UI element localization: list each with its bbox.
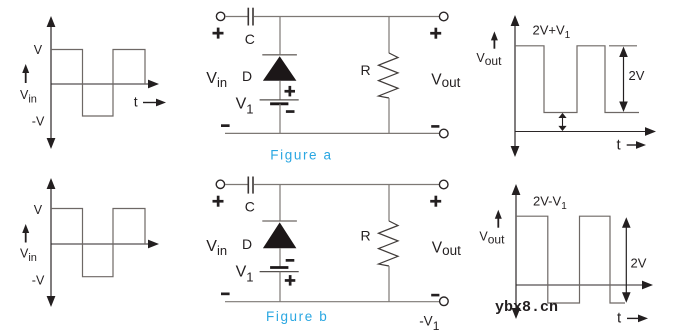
wire capacitor to output terminal via top rail (Figure a) <box>254 16 440 18</box>
svg-text:V: V <box>34 43 43 57</box>
svg-text:2V+V1: 2V+V1 <box>533 23 571 42</box>
svg-text:-V: -V <box>32 274 45 288</box>
diode D cathode bar (Figure a) <box>262 54 297 56</box>
Vout axis vertical (bottom-right panel) <box>512 184 521 319</box>
t axis horizontal (bottom-left panel) <box>51 240 159 249</box>
waveform trace Vin square wave (bottom-left panel) <box>51 209 145 277</box>
arrow up beside Vin label (top-left panel) <box>22 64 29 83</box>
wire battery to bottom rail (Figure b) <box>279 272 281 302</box>
Vin axis vertical (bottom-left panel) <box>47 178 56 307</box>
Vout axis vertical (top-right panel) <box>511 15 520 157</box>
t axis horizontal (top-left panel) <box>51 80 159 89</box>
wire top rail to diode (Figure b) <box>279 185 281 221</box>
svg-text:-V1: -V1 <box>419 313 440 333</box>
svg-text:2V: 2V <box>631 255 647 270</box>
svg-text:t: t <box>134 94 138 110</box>
svg-text:Figure a: Figure a <box>270 148 332 163</box>
input terminal + (Figure b) <box>216 180 224 188</box>
arrow up beside Vout label (bottom-right panel) <box>495 210 502 228</box>
diode D triangle (Figure a) <box>263 56 297 80</box>
wire diode to battery (Figure b) <box>279 248 281 267</box>
dimension arrow 2V (top-right panel) <box>619 47 628 113</box>
svg-text:V1: V1 <box>236 95 254 116</box>
waveform trace Vout square wave (bottom-right panel) <box>516 216 625 303</box>
battery V1 reversed (Figure b) <box>260 268 299 272</box>
polarity - at input bottom (Figure a) <box>221 124 230 127</box>
polarity + at input (Figure a) <box>213 28 224 39</box>
svg-text:V1: V1 <box>236 263 254 284</box>
svg-text:Figure b: Figure b <box>266 309 328 324</box>
battery V1 polarity + (Figure a) <box>285 86 296 97</box>
svg-text:2V: 2V <box>629 68 645 83</box>
svg-text:t: t <box>617 137 622 154</box>
output terminal + (Figure b) <box>439 180 448 189</box>
battery V1 polarity - (Figure a) <box>286 110 295 113</box>
bottom rail wire (Figure a) <box>225 132 439 134</box>
svg-text:R: R <box>361 62 371 78</box>
wire capacitor to output terminal via top rail (Figure b) <box>254 184 440 186</box>
svg-text:2V-V1: 2V-V1 <box>533 194 567 213</box>
wire resistor to bottom rail (Figure a) <box>388 98 390 133</box>
capacitor C (Figure b) <box>248 177 253 194</box>
diode D triangle (Figure b) <box>263 222 297 248</box>
wire diode to battery (Figure a) <box>279 81 281 100</box>
svg-text:Vout: Vout <box>476 51 502 68</box>
arrow up beside Vin label (bottom-left panel) <box>22 224 29 243</box>
resistor R (Figure a) <box>379 53 399 98</box>
polarity + at output (Figure b) <box>430 196 441 207</box>
wire top rail to resistor (Figure b) <box>388 185 390 222</box>
battery V1 (Figure a) <box>260 100 299 104</box>
axis label t with arrow (top-left panel) <box>134 94 166 110</box>
axis label t with arrow (top-right panel) <box>617 137 647 154</box>
waveform trace Vin square wave (top-left panel) <box>51 50 145 117</box>
t axis horizontal (top-right panel) <box>515 127 656 136</box>
svg-text:Vin: Vin <box>206 70 227 90</box>
svg-text:C: C <box>245 31 255 47</box>
reference line high level (top-right panel) <box>609 45 637 47</box>
resistor R (Figure b) <box>379 221 399 266</box>
polarity - at output bottom (Figure a) <box>431 125 439 128</box>
wire battery to bottom rail (Figure a) <box>279 104 281 134</box>
polarity - at output bottom (Figure b) <box>431 294 439 297</box>
svg-text:C: C <box>245 199 255 215</box>
svg-text:R: R <box>361 228 371 244</box>
wire top rail to resistor (Figure a) <box>388 17 390 54</box>
svg-text:t: t <box>617 310 622 327</box>
wire top rail to diode (Figure a) <box>279 17 281 55</box>
svg-text:Vin: Vin <box>206 238 227 258</box>
arrow up beside Vout label (top-right panel) <box>491 31 498 48</box>
dimension arrow V1 offset (top-right panel) <box>558 113 566 131</box>
t axis horizontal (bottom-right panel) <box>516 281 653 290</box>
battery V1 polarity - (Figure b) <box>286 259 295 262</box>
wire input terminal to capacitor (Figure b) <box>225 184 248 186</box>
Vin axis vertical (top-left panel) <box>47 16 56 149</box>
svg-text:D: D <box>242 68 252 84</box>
svg-text:V: V <box>34 203 43 217</box>
input terminal + (Figure a) <box>216 12 224 20</box>
polarity - at input bottom (Figure b) <box>221 293 230 296</box>
svg-text:Vin: Vin <box>20 247 37 265</box>
svg-text:Vout: Vout <box>432 239 461 257</box>
bottom rail wire (Figure b) <box>225 301 439 303</box>
diode D cathode bar (Figure b) <box>262 220 297 222</box>
bottom output terminal - (Figure a) <box>440 129 449 138</box>
svg-text:Vin: Vin <box>20 88 37 106</box>
wire resistor to bottom rail (Figure b) <box>388 266 390 302</box>
bottom output terminal - (Figure b) <box>440 297 449 306</box>
waveform trace Vout square wave (top-right panel) <box>515 46 639 113</box>
svg-text:ybx8.cn: ybx8.cn <box>495 299 558 316</box>
axis label t with arrow (bottom-right panel) <box>617 310 648 327</box>
capacitor C (Figure a) <box>248 8 253 26</box>
output terminal + (Figure a) <box>439 12 448 21</box>
svg-text:D: D <box>242 236 252 252</box>
polarity + at output (Figure a) <box>430 28 441 39</box>
wire input terminal to capacitor (Figure a) <box>225 16 248 18</box>
svg-text:Vout: Vout <box>431 71 460 89</box>
dimension arrow 2V (bottom-right panel) <box>622 217 631 303</box>
svg-text:-V: -V <box>32 115 45 129</box>
svg-text:Vout: Vout <box>479 230 505 247</box>
polarity + at input (Figure b) <box>213 196 224 207</box>
battery V1 polarity + (Figure b) <box>285 275 296 286</box>
